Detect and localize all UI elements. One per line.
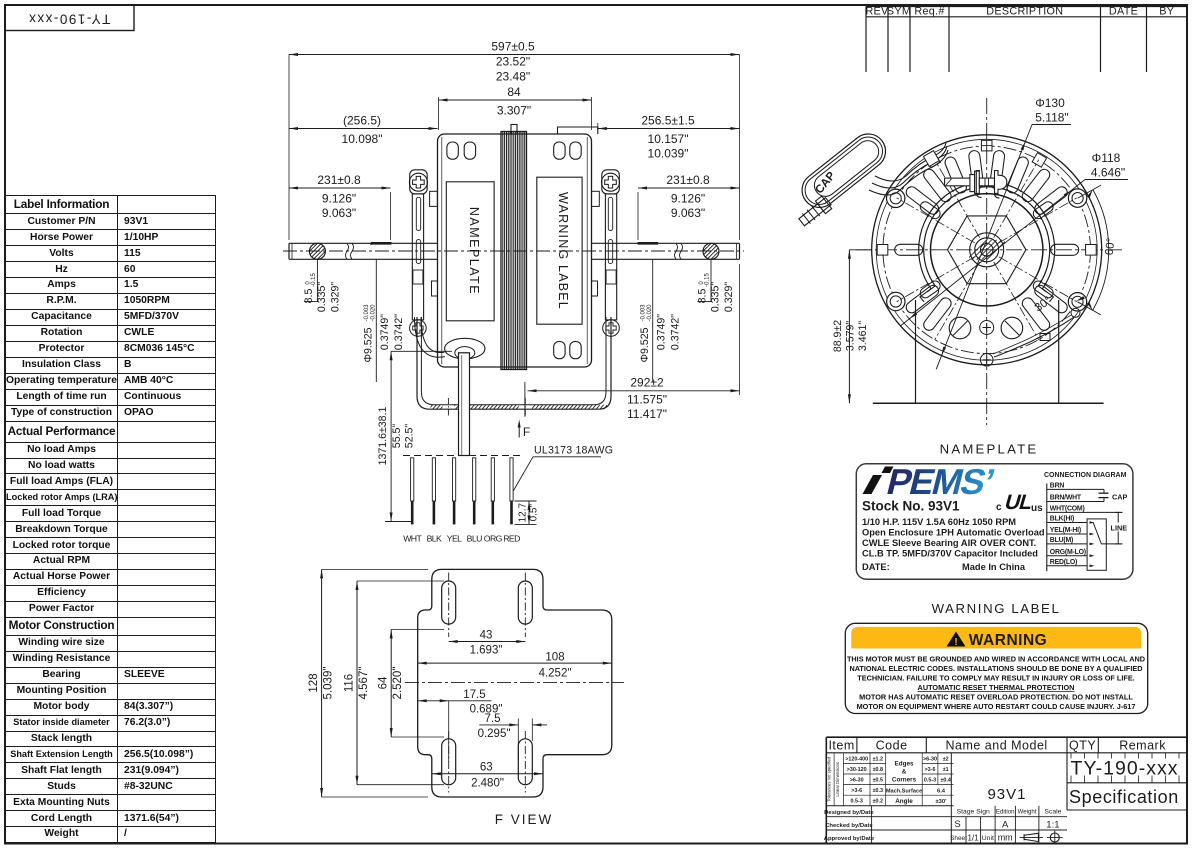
svg-text:>6-30: >6-30 [850,778,864,784]
svg-text:17.5: 17.5 [463,689,485,701]
NAMEPLATE caption [940,442,1039,457]
svg-text:±0.4: ±0.4 [940,778,950,784]
svg-text:!: ! [954,637,957,648]
F view dimension 63 [432,762,543,790]
nameplate panel on motor [446,182,494,321]
mounting slot centerline marks [448,398,525,417]
svg-text:0.329": 0.329" [330,282,342,313]
svg-text:±0.2: ±0.2 [873,799,883,805]
svg-text:60°: 60° [1104,237,1118,256]
svg-text:9.063": 9.063" [322,206,356,220]
svg-text:BY: BY [1159,6,1174,18]
svg-text:S: S [954,819,960,830]
svg-text:MOTOR ON EQUIPMENT WHERE AUTO: MOTOR ON EQUIPMENT WHERE AUTO RESTART CO… [857,702,1136,711]
svg-text:231±0.8: 231±0.8 [317,173,361,187]
svg-text:10.157": 10.157" [648,132,689,146]
svg-text:>30-120: >30-120 [847,767,867,773]
svg-text:9.126": 9.126" [322,192,356,206]
warning yellow banner [851,627,1141,649]
93V1 model number [954,753,1027,806]
svg-text:7.5: 7.5 [485,713,501,725]
svg-text:84: 84 [507,85,521,99]
top-left drawing number box [5,5,134,31]
svg-text:THIS MOTOR MUST BE GROUNDED AN: THIS MOTOR MUST BE GROUNDED AND WIRED IN… [847,655,1145,664]
svg-text:Tolerances not specified: Tolerances not specified [827,756,832,802]
dimension 30 degree [1033,295,1085,315]
F VIEW caption [495,812,554,827]
svg-text:10.039": 10.039" [648,147,689,161]
svg-text:-0.003: -0.003 [641,304,647,322]
capacitor symbol in diagram [1103,489,1105,493]
svg-text:11.417": 11.417" [627,407,667,421]
lead wires [411,458,513,525]
svg-text:TECHNICIAN. FAILURE TO COMPLY: TECHNICIAN. FAILURE TO COMPLY MAY RESULT… [857,674,1134,683]
dimension 231 right [638,173,740,240]
svg-text:Name and Model: Name and Model [945,739,1047,753]
svg-text:>6-30: >6-30 [923,756,937,762]
svg-text:0.3742": 0.3742" [393,314,405,350]
svg-text:0.3749": 0.3749" [656,314,668,350]
svg-text:6.4: 6.4 [937,788,946,794]
LINE bracket in diagram [1117,512,1119,544]
svg-text:WHT(COM): WHT(COM) [1050,506,1085,513]
svg-text:Unit: Unit [982,835,994,842]
svg-text:Φ130: Φ130 [1035,96,1065,110]
dimension 231 left [289,173,391,240]
end view bottom screws [949,317,1023,366]
ground wire to screw [993,308,1080,357]
cord jacket end dashes [403,455,524,457]
right mounting strap with screw [592,170,620,337]
right shaft hatched section circle [690,242,732,260]
svg-text:-0.020: -0.020 [371,304,377,322]
svg-text:mm: mm [998,833,1013,843]
warning triangle and title [947,632,1048,650]
capacitor wires to motor [869,143,948,195]
F view dimension 43 [449,572,526,657]
left shaft [289,243,438,259]
svg-text:Checked by/Date: Checked by/Date [825,823,873,829]
svg-text:4.646": 4.646" [1091,166,1125,180]
svg-text:CWLE Sleeve Bearing AIR OVER: CWLE Sleeve Bearing AIR OVER CONT. [862,538,1036,548]
left shaft hatched section circle [296,242,338,260]
svg-text:Designed by/Date: Designed by/Date [824,810,874,816]
svg-text:RED(LO): RED(LO) [1050,559,1077,566]
svg-text:Item: Item [828,739,854,753]
svg-text:AUTOMATIC RESET THERMAL PROTEC: AUTOMATIC RESET THERMAL PROTECTION [918,683,1075,692]
svg-text:REV: REV [865,6,889,18]
F view dimension 7.5 [478,713,548,760]
svg-text:>120-400: >120-400 [845,756,868,762]
svg-text:UL3173 18AWG: UL3173 18AWG [534,445,613,457]
svg-text:Open Enclosure 1PH Automatic O: Open Enclosure 1PH Automatic Overload [862,527,1045,537]
cULus mark [996,490,1043,514]
end view outer shell circles [872,135,1102,365]
svg-text:9.063": 9.063" [671,206,705,220]
left shaft diameter labels 8.5 [303,260,342,313]
svg-text:ORG: ORG [484,534,503,544]
svg-text:-0.003: -0.003 [364,304,370,322]
svg-text:292±2: 292±2 [630,376,664,390]
svg-text:>3-6: >3-6 [925,767,936,773]
svg-text:-0.020: -0.020 [647,304,653,322]
svg-text:DATE:: DATE: [862,562,890,572]
svg-text:Angle: Angle [895,798,913,805]
svg-text:8.5: 8.5 [697,289,709,304]
svg-text:Stock No. 93V1: Stock No. 93V1 [862,499,960,514]
svg-text:116: 116 [344,674,356,692]
svg-text:Stage Sign: Stage Sign [957,809,990,816]
svg-text:BRN: BRN [1050,483,1065,490]
svg-text:us: us [1031,503,1043,514]
connection diagram [1044,472,1128,571]
warning label border [845,623,1147,713]
svg-text:231±0.8: 231±0.8 [666,173,710,187]
end view vent slots [895,150,1079,333]
svg-text:SYM: SYM [887,6,911,18]
F view arrow marker [518,420,530,440]
title block header row [826,737,1187,753]
svg-text:108: 108 [545,652,564,664]
WARNING LABEL caption [932,601,1061,616]
svg-text:Linear Dimensions: Linear Dimensions [835,762,840,797]
revision table [865,6,1187,72]
dimension phi130 [936,96,1071,369]
svg-text:YEL(M-HI): YEL(M-HI) [1050,527,1081,534]
end view center shaft rings [967,233,1007,267]
base plate hatching [428,404,612,410]
svg-text:93V1: 93V1 [987,786,1026,803]
end view square lugs [877,140,1096,255]
svg-text:F: F [523,425,530,439]
end view centerlines [856,98,1124,425]
svg-text:52.5": 52.5" [404,424,416,449]
svg-text:1371.6±38.1: 1371.6±38.1 [377,406,389,465]
svg-text:55.5": 55.5" [391,424,403,449]
svg-text:Sheet: Sheet [950,835,967,842]
svg-text:DESCRIPTION: DESCRIPTION [986,6,1063,18]
dimension 1371.6 cord length [377,351,452,521]
F view bracket outline [418,569,612,797]
svg-text:Req.#: Req.# [914,6,944,18]
svg-text:88.9±2: 88.9±2 [832,320,844,352]
terminal cover step top right [558,127,598,134]
svg-text:NATIONAL ELECTRIC CODES. INSTA: NATIONAL ELECTRIC CODES. INSTALLATIONS S… [849,664,1142,673]
svg-text:0.335": 0.335" [710,282,722,313]
svg-text:Φ9.525: Φ9.525 [639,327,651,362]
wire clamp square on rim [923,151,939,167]
svg-text:Code: Code [876,739,908,753]
svg-text:3.307": 3.307" [497,104,531,118]
svg-text:BLK: BLK [427,534,442,544]
svg-text:±0.5: ±0.5 [873,778,883,784]
svg-text:4.567": 4.567" [358,667,370,700]
svg-text:CAP: CAP [1112,493,1128,502]
svg-text:F VIEW: F VIEW [495,812,554,827]
svg-text:YEL: YEL [447,534,462,544]
svg-text:±1.2: ±1.2 [873,756,883,762]
svg-text:Edges: Edges [895,761,914,768]
svg-text:23.48": 23.48" [496,70,530,84]
svg-text:&: & [902,769,907,776]
svg-text:BLK(HI): BLK(HI) [1050,516,1074,523]
motor body outline [438,134,592,367]
svg-text:23.52": 23.52" [496,55,530,69]
F view dimension 64 [378,629,444,737]
svg-text:1/10 H.P. 115V 1.5A 60Hz: 1/10 H.P. 115V 1.5A 60Hz 1050 RPM [862,517,1016,527]
svg-text:2.520": 2.520" [392,667,404,700]
svg-text:Approved by/Date: Approved by/Date [824,836,875,842]
warning label panel on motor [537,177,582,324]
svg-text:NAMEPLATE: NAMEPLATE [940,442,1039,457]
right shaft diameter labels 8.5 [697,260,736,313]
end view through-bolt eyelets [887,189,1087,311]
svg-text:Specification: Specification [1069,787,1179,807]
svg-text:Φ9.525: Φ9.525 [363,327,375,362]
tolerance table [826,753,953,806]
nameplate spec text lines [862,517,1045,572]
svg-text:8.5: 8.5 [303,289,315,304]
Stock No text [862,499,960,514]
svg-text:Φ118: Φ118 [1092,151,1121,165]
svg-text:RED: RED [503,534,520,544]
vent slots top of body [447,142,581,159]
dimension 256.5 right shaft [598,114,740,161]
svg-text:0.3749": 0.3749" [379,314,391,350]
svg-text:0.335": 0.335" [316,282,328,313]
label information table [5,195,216,843]
dimension 84 body width [439,85,592,130]
first angle projection symbol [1020,833,1044,841]
capacitor CAP assembly [795,127,892,229]
projection target symbol [1047,831,1063,845]
svg-text:A: A [1002,820,1009,831]
svg-text:BLU(M): BLU(M) [1050,537,1073,544]
svg-text:Mach.Surface: Mach.Surface [886,788,922,794]
svg-text:±0.8: ±0.8 [873,767,883,773]
F view dimension 128 [308,569,428,797]
svg-text:WARNING LABEL: WARNING LABEL [556,192,570,310]
svg-text:1/1: 1/1 [967,834,979,843]
svg-text:PEMS’: PEMS’ [883,462,998,502]
stage sign edition weight scale header [951,806,1067,844]
svg-text:5.118": 5.118" [1035,111,1068,125]
left shaft flat region [371,243,392,245]
end view bolt circle dashed [883,146,1091,354]
end view base bracket [873,300,1104,403]
dimension 597 overall length [289,40,740,241]
F view dimension 17.5 [418,689,503,762]
svg-text:1.693": 1.693" [470,645,503,657]
svg-text:MOTOR HAS AUTOMATIC RESET OVER: MOTOR HAS AUTOMATIC RESET OVERLOAD PROTE… [859,693,1133,702]
lamination stack [501,132,527,370]
capacitor clamp bolt at top [945,171,1007,199]
svg-text:0.5-3: 0.5-3 [924,778,936,784]
svg-text:TY-190-xxx: TY-190-xxx [28,12,111,27]
svg-text:Scale: Scale [1044,809,1061,816]
switch box in diagram [1087,519,1106,570]
PEMS logo [863,462,998,502]
svg-text:QTY: QTY [1069,739,1096,753]
svg-text:LINE: LINE [1111,524,1128,533]
svg-text:±2: ±2 [943,756,949,762]
right shaft flat region [638,242,659,245]
svg-text:(256.5): (256.5) [343,114,381,128]
svg-text:Made In China: Made In China [962,562,1026,572]
vent slots bottom right of body [554,342,582,359]
svg-text:64: 64 [378,676,390,689]
svg-text:>3-6: >3-6 [851,788,862,794]
F view dimension 116 [344,581,445,785]
end view hexagon [948,216,1026,284]
svg-text:9.126": 9.126" [671,192,705,206]
side view centerline [283,250,744,252]
svg-text:128: 128 [308,673,320,692]
svg-text:NAMEPLATE: NAMEPLATE [467,207,481,295]
end view dash-dot spokes [897,160,1077,340]
svg-text:12.7: 12.7 [518,503,529,523]
mounting band side view [417,317,611,409]
svg-text:0.5-3: 0.5-3 [851,799,863,805]
strain relief wire loop [415,317,445,357]
svg-text:BRN/WHT: BRN/WHT [1050,495,1082,502]
svg-text:2.480": 2.480" [471,778,504,790]
left shaft diameter labels 9.525 [363,260,406,383]
end view belly band arcs [919,182,1055,302]
signature rows [824,753,952,844]
lamination hanger tab [511,125,517,135]
svg-text:DATE: DATE [1109,6,1138,18]
svg-text:CONNECTION DIAGRAM: CONNECTION DIAGRAM [1044,472,1127,479]
dimension 88.9 height [832,250,873,403]
svg-text:0.5": 0.5" [529,504,540,522]
left mounting strap with screw [409,170,437,337]
svg-text:±30': ±30' [935,799,947,805]
stage sign cells [954,817,1059,844]
svg-text:Weight: Weight [1018,809,1037,816]
dimension 292 bracket to shaft end [525,264,740,421]
svg-text:Edition: Edition [996,809,1015,816]
right shaft [592,243,740,259]
svg-text:256.5±1.5: 256.5±1.5 [641,114,695,128]
svg-text:0.3742": 0.3742" [670,314,682,350]
power cord [459,353,470,456]
F view dimension 108 [418,652,612,680]
svg-text:BLU: BLU [467,534,482,544]
cord grommet [445,338,485,359]
svg-text:0.329": 0.329" [723,282,735,313]
svg-text:WARNING LABEL: WARNING LABEL [932,601,1061,616]
svg-text:3.579": 3.579" [845,321,857,352]
svg-text:Remark: Remark [1119,739,1166,753]
sheet unit row [950,833,1013,843]
UL3173 18AWG wire callout [514,445,614,491]
lead wire color labels [403,534,520,544]
dimension phi118 [900,151,1128,326]
svg-text:CL.B TP. 5MFD/370V Capacitor: CL.B TP. 5MFD/370V Capacitor Included [862,548,1038,558]
svg-text:WHT: WHT [403,534,422,544]
svg-text:c: c [996,502,1002,513]
svg-text:10.098": 10.098" [342,132,383,146]
svg-text:11.575": 11.575" [627,393,667,407]
warning body text [847,655,1145,712]
svg-text:Corners: Corners [892,777,917,784]
svg-text:43: 43 [480,630,493,642]
svg-text:ORG(M-LO): ORG(M-LO) [1050,549,1086,556]
svg-text:±0.3: ±0.3 [873,788,883,794]
dimension 12.7 wire strip length [515,501,540,524]
title block outer lines [826,737,1187,843]
svg-text:4.252": 4.252" [539,668,572,680]
end view bearing hub circle [931,194,1043,306]
svg-text:3.461": 3.461" [857,321,869,352]
nameplate label border [856,464,1133,580]
F view mounting slots [442,573,533,793]
svg-text:0.295": 0.295" [478,728,511,740]
svg-text:63: 63 [480,762,493,774]
svg-text:5.039": 5.039" [323,667,335,700]
svg-text:597±0.5: 597±0.5 [491,40,535,54]
dimension 256.5 left shaft [289,114,438,147]
dimension 60 degree arc [1078,185,1118,315]
TY-190-xxx remark [1067,753,1179,810]
svg-text:WARNING: WARNING [969,632,1047,649]
F view horizontal centerline [405,681,624,683]
Specification text [1067,783,1187,810]
right shaft diameter labels 9.525 [639,260,682,383]
svg-text:TY-190-xxx: TY-190-xxx [1071,758,1179,780]
svg-text:1:1: 1:1 [1046,820,1059,831]
svg-text:±1: ±1 [943,767,949,773]
